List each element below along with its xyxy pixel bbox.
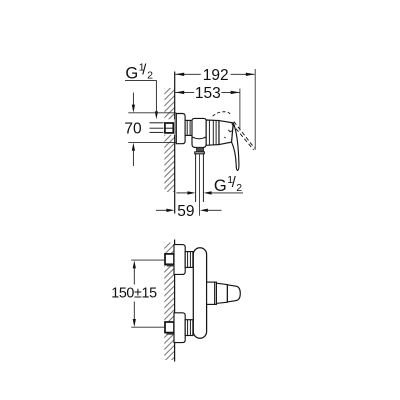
body lower arc <box>192 137 206 139</box>
lever handle (solid, down position) <box>232 123 239 171</box>
svg-text:G: G <box>125 65 138 83</box>
dashed raised-lever edge 1 <box>234 122 255 149</box>
dimension 70 extension lines <box>128 112 176 114</box>
extension line 153 <box>239 89 241 131</box>
dimension 153 <box>175 91 194 93</box>
bottom mounting bolt <box>165 322 174 333</box>
svg-text:150±15: 150±15 <box>111 286 157 302</box>
svg-text:2: 2 <box>236 182 242 194</box>
wall face line (lower view) <box>174 240 176 362</box>
top union nut (lower view) <box>185 252 193 268</box>
handle cone <box>219 121 233 145</box>
svg-text:G: G <box>214 177 227 195</box>
wall hatch (upper view) <box>164 88 174 192</box>
spout base block <box>207 282 217 304</box>
wall face line (upper view) <box>174 72 176 214</box>
shower outlet nipple (threaded, dark) <box>196 148 203 152</box>
svg-text:2: 2 <box>147 70 153 82</box>
svg-text:59: 59 <box>177 203 194 220</box>
dimension 192 <box>175 73 201 75</box>
hose centre extension line <box>199 154 201 216</box>
escutcheon (upper view) <box>176 114 185 144</box>
dashed raised-handle outline (arc) <box>213 112 231 116</box>
svg-text:153: 153 <box>195 85 221 102</box>
mixer main body (upper view) <box>192 118 206 147</box>
hose union nut <box>195 152 205 154</box>
small marks inside cone <box>228 130 232 132</box>
cartridge section <box>206 120 219 145</box>
svg-text:192: 192 <box>203 67 229 84</box>
dashed raised-lever edge 2 <box>232 124 254 150</box>
top escutcheon (lower view) <box>174 245 185 275</box>
dimension 150±15 <box>133 260 136 268</box>
top mounting bolt <box>165 254 174 264</box>
extension line 192 <box>254 69 256 150</box>
bottom mounting pipe line <box>131 326 167 328</box>
dimension 70 <box>132 93 134 105</box>
dimension 59 <box>156 209 167 211</box>
white clearing behind hex nut <box>164 119 175 135</box>
mixer body capsule (lower view) <box>193 248 206 338</box>
bottom escutcheon (lower view) <box>174 313 185 343</box>
spout cone <box>216 283 227 303</box>
G1/2 leader vertical with arrow <box>155 80 157 112</box>
svg-text:70: 70 <box>124 121 142 138</box>
spout tip <box>227 285 240 302</box>
supply pipe stub behind wall <box>150 123 174 133</box>
shower hose lines <box>195 154 197 202</box>
bottom union nut (lower view) <box>185 320 193 336</box>
G1/2 hose dimension arrows <box>176 192 187 194</box>
top mounting pipe line <box>131 259 167 261</box>
wall hatch (lower view) <box>164 243 174 361</box>
G1/2 leader underline <box>125 79 156 81</box>
union nut (upper view) <box>185 120 192 135</box>
hex nut on supply stub <box>165 123 173 133</box>
